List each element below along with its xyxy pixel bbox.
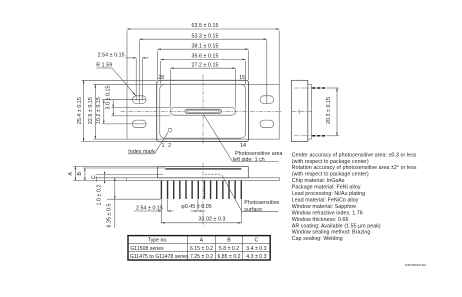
svg-text:Lead material: FeNiCo alloy: Lead material: FeNiCo alloy (292, 198, 359, 204)
vertical centerline front view (202, 75, 204, 146)
svg-text:6.15 ± 0.2: 6.15 ± 0.2 (190, 246, 213, 252)
svg-text:15: 15 (239, 75, 245, 81)
svg-text:Type no.: Type no. (148, 238, 168, 244)
svg-text:B: B (227, 238, 231, 244)
dimension 33.02 lead span (161, 200, 241, 224)
seating plane extension (73, 180, 126, 182)
svg-text:left side: 1 ch: left side: 1 ch (233, 157, 265, 163)
pin number 2 (168, 143, 171, 149)
svg-text:Cap sealing: Welding: Cap sealing: Welding (292, 236, 343, 242)
svg-text:6.85 ± 0.2: 6.85 ± 0.2 (217, 254, 240, 260)
bottom view window strip (165, 168, 241, 170)
svg-text:7.25 ± 0.2: 7.25 ± 0.2 (190, 254, 213, 260)
dimension 2.54 lead pitch (134, 200, 174, 224)
side view slot section top (294, 87, 325, 89)
svg-text:3.0 ± 0.15: 3.0 ± 0.15 (106, 85, 112, 109)
pin number 14 (240, 143, 246, 149)
dimension 0.45 lead diameter (181, 200, 211, 212)
flange front view (127, 84, 279, 139)
svg-text:53.3 ± 0.15: 53.3 ± 0.15 (191, 33, 218, 39)
svg-text:35.6 ± 0.15: 35.6 ± 0.15 (191, 54, 218, 60)
svg-text:A: A (200, 238, 204, 244)
svg-text:38.1 ± 0.15: 38.1 ± 0.15 (191, 44, 218, 50)
hole centerline left (138, 41, 140, 104)
svg-text:22.9 ± 0.15: 22.9 ± 0.15 (88, 97, 94, 124)
svg-text:Chip material: InGaAs: Chip material: InGaAs (292, 178, 345, 184)
pins (14 leads) (161, 181, 241, 200)
mounting slot hole bottom-left (132, 120, 146, 128)
svg-text:Window refractive index: 1.76: Window refractive index: 1.76 (292, 210, 363, 216)
svg-text:G11508 series: G11508 series (130, 246, 164, 252)
hole centerline right (266, 41, 268, 104)
drawing code (405, 263, 427, 267)
svg-text:(with respect to package cente: (with respect to package center) (292, 159, 369, 165)
svg-text:(with respect to package cente: (with respect to package center) (292, 172, 369, 178)
dimension 3.0 window height (106, 85, 171, 116)
svg-text:10.2 ± 0.15: 10.2 ± 0.15 (96, 97, 102, 124)
side view slot section bottom (294, 135, 325, 137)
side view body (292, 80, 312, 141)
specification text block (292, 152, 417, 242)
package cap front view (157, 80, 249, 141)
svg-text:KIRDB0467EA: KIRDB0467EA (405, 263, 427, 267)
dimension 20.3 (326, 88, 339, 136)
svg-text:3.4 ± 0.3: 3.4 ± 0.3 (246, 246, 266, 252)
svg-text:27.2 ± 0.15: 27.2 ± 0.15 (191, 63, 218, 69)
svg-text:6.35 ± 0.5: 6.35 ± 0.5 (107, 203, 113, 227)
pin number 28 (158, 75, 164, 81)
photosensitive surface label (222, 175, 280, 213)
pin number 1 (162, 143, 165, 149)
svg-text:C: C (91, 175, 97, 179)
mounting slot hole top-right (260, 96, 274, 104)
svg-text:2.54 ± 0.15: 2.54 ± 0.15 (98, 52, 125, 58)
dimension 25.4 left (77, 80, 156, 141)
dimension 53.3 (139, 33, 267, 40)
side view center cross (292, 110, 312, 115)
svg-text:20.3 ± 0.15: 20.3 ± 0.15 (326, 97, 332, 124)
bottom view hidden photosensitive line (205, 173, 222, 175)
svg-text:33.02 ± 0.3: 33.02 ± 0.3 (198, 216, 225, 222)
dimension 10.2 left (96, 97, 146, 124)
dimension A (68, 166, 158, 180)
dimension 27.2 (170, 63, 235, 108)
svg-text:Package material: FeNi alloy: Package material: FeNi alloy (292, 185, 361, 191)
dimension C (91, 172, 164, 184)
svg-text:1: 1 (162, 143, 165, 149)
svg-text:B: B (77, 171, 83, 175)
svg-text:63.5 ± 0.15: 63.5 ± 0.15 (191, 23, 218, 29)
svg-text:AR coating: Available (1.55 μm: AR coating: Available (1.55 μm peak) (292, 223, 381, 229)
window slot (170, 108, 235, 116)
dimension 2.54 top (98, 52, 149, 100)
index mark label (128, 132, 168, 155)
svg-text:φ0.45 ± 0.05: φ0.45 ± 0.05 (181, 204, 211, 210)
svg-text:C: C (255, 238, 259, 244)
mounting slot hole bottom-right (260, 120, 274, 128)
svg-text:G11475 to G11478 series: G11475 to G11478 series (130, 254, 189, 260)
svg-text:Window sealing method: Brazing: Window sealing method: Brazing (292, 230, 371, 236)
svg-text:14: 14 (240, 143, 246, 149)
dimension 63.5 (127, 23, 279, 84)
svg-text:Rotation accuracy of photosens: Rotation accuracy of photosensitive area… (292, 165, 417, 171)
horizontal centerline front view (121, 110, 283, 112)
dimension B (77, 168, 165, 181)
dimension 35.6 (160, 54, 245, 84)
bottom view cap body (158, 167, 249, 178)
dimension 1.0 flange thickness (95, 176, 127, 205)
svg-text:1.0 ± 0.2: 1.0 ± 0.2 (96, 184, 102, 205)
svg-text:Lead processing: Ni/Au plating: Lead processing: Ni/Au plating (292, 191, 365, 197)
svg-text:28: 28 (158, 75, 164, 81)
mounting slot hole top-left (132, 96, 146, 104)
dimension 6.35 lead length (107, 178, 161, 228)
svg-text:4.3 ± 0.3: 4.3 ± 0.3 (246, 254, 266, 260)
photosensitive strip (185, 109, 222, 113)
svg-text:Window thickness: 0.66: Window thickness: 0.66 (292, 217, 349, 223)
label R 1.59 (96, 63, 135, 96)
bottom view flange plate (127, 178, 280, 181)
pin number 15 (239, 75, 245, 81)
svg-text:Window material: Sapphire: Window material: Sapphire (292, 204, 357, 210)
bottom view centerline (202, 163, 204, 226)
svg-text:5.8 ± 0.2: 5.8 ± 0.2 (219, 246, 239, 252)
type table (128, 236, 270, 260)
svg-text:25.4 ± 0.15: 25.4 ± 0.15 (77, 97, 83, 124)
photosensitive area label (203, 114, 282, 162)
svg-text:A: A (68, 171, 74, 175)
dimension 38.1 (158, 44, 249, 81)
svg-text:2: 2 (168, 143, 171, 149)
svg-text:surface: surface (244, 207, 262, 213)
index mark circle (168, 128, 172, 132)
svg-text:Center accuracy of photosensit: Center accuracy of photosensitive area: … (292, 152, 417, 158)
svg-text:Photosensitive: Photosensitive (244, 200, 279, 206)
dimension 22.9 left (88, 84, 127, 139)
